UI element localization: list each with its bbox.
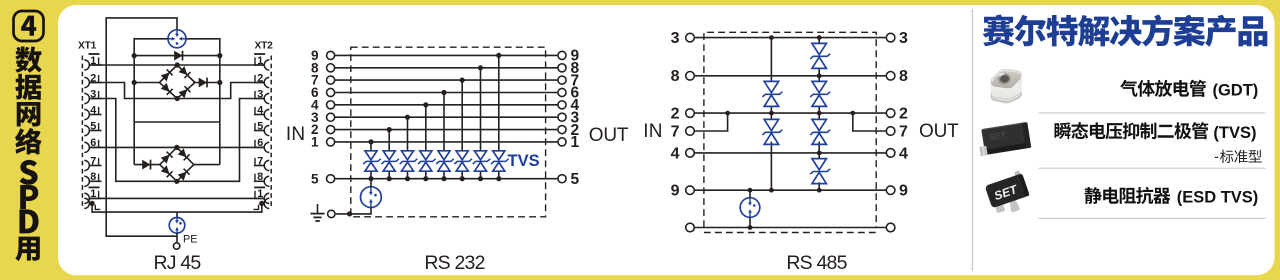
gas discharge tube F4 (RS485) <box>740 198 760 218</box>
svg-text:RJ 45: RJ 45 <box>154 252 202 274</box>
wire rail to GDT F2 <box>370 179 372 187</box>
RS232 ground terminal circle <box>328 210 335 217</box>
node bridge A left <box>132 80 137 85</box>
RS485 line 7 jog right <box>853 113 887 131</box>
node bridge B top on pin6 <box>174 145 179 150</box>
node bridge B bottom on pin3 path <box>174 179 179 184</box>
RS485 line 9 <box>694 189 887 191</box>
svg-text:4: 4 <box>90 104 96 116</box>
TVS diode VT13 (col2 line2-4) <box>810 119 830 144</box>
svg-text:(TVS): (TVS) <box>1213 124 1256 142</box>
wire pin2 XT1 jog to bridge bottom to XT2 <box>89 83 265 99</box>
TVS diode VT5 (RS232) <box>436 151 454 171</box>
RS232 IN terminals 9-1 <box>286 9 1267 274</box>
diode D9 bridge B upper-right <box>178 148 190 160</box>
diode D1 top row <box>174 51 182 61</box>
svg-text:5: 5 <box>257 120 263 132</box>
diode D6 bridge A output <box>199 78 207 88</box>
node bridge A top on pin1 <box>175 62 180 67</box>
TVS diode VT1 (RS232) <box>363 151 381 171</box>
diode D11 bridge B lower-right <box>178 169 190 181</box>
RS485 line 4 <box>694 152 887 154</box>
svg-text:IN: IN <box>286 124 305 145</box>
RS485 column1 wires <box>770 38 772 191</box>
node bridge A bottom on pin2 path <box>175 96 180 101</box>
svg-text:IN: IN <box>643 121 662 142</box>
svg-text:7: 7 <box>257 155 263 167</box>
RS485 junction nodes <box>643 9 1267 274</box>
wire GDT F2 to ground line <box>336 208 371 214</box>
svg-text:4: 4 <box>671 145 680 162</box>
inner box top edge through GDT F1 <box>134 38 220 40</box>
wire GDT F3 to PE terminal <box>176 233 178 243</box>
wire bridge B row <box>134 164 220 166</box>
terminal XT1 pins 1-8 and 1 <box>84 54 101 204</box>
node diode row left <box>132 53 137 58</box>
svg-text:2: 2 <box>671 106 680 123</box>
diode D5 bridge A lower-right <box>179 86 191 98</box>
wire row 1 (9th) XT1 to XT2 <box>90 197 264 199</box>
TVS diode VT8 (RS232) <box>491 151 509 171</box>
wire pin6 XT1 to XT2 <box>89 146 265 148</box>
RS485 line 7 jog left <box>694 113 728 131</box>
TVS diode VT4 (RS232) <box>418 151 436 171</box>
diode D3 bridge A upper-right <box>179 66 191 78</box>
RS485 IN terminals <box>643 9 1267 274</box>
TVS product photo <box>977 122 1032 156</box>
RS485 protection dashed enclosure <box>704 32 876 232</box>
diode D10 bridge B lower-left <box>161 165 173 177</box>
wire shield U link <box>92 203 262 212</box>
TVS diode VT3 (RS232) <box>400 151 418 171</box>
separator 2 <box>1039 167 1266 169</box>
wire shield to GDT F3 <box>176 212 178 218</box>
TVS subtype label -标准型 <box>1214 149 1262 165</box>
RS485 line 2 <box>694 112 887 114</box>
terminal strip dashed line XT2 <box>270 56 272 210</box>
diode D2 bridge A upper-left <box>161 69 173 81</box>
vertical divider <box>972 9 974 271</box>
separator 1 <box>1039 112 1266 114</box>
wire pin3 XT1 jog down to lower rail to XT2 <box>89 99 265 182</box>
svg-text:4: 4 <box>899 145 908 162</box>
svg-text:8: 8 <box>90 171 96 183</box>
RS232 TVS to rail wires with junctions <box>286 9 1267 274</box>
svg-text:(ESD TVS): (ESD TVS) <box>1177 189 1259 207</box>
svg-text:3: 3 <box>899 30 908 47</box>
TVS diode VT14 (col2 line4-9) <box>810 159 830 184</box>
wire PE loop (top edge, left edge, bottom edge) <box>106 18 177 236</box>
svg-text:7: 7 <box>90 155 96 167</box>
svg-text:9: 9 <box>899 183 908 200</box>
RS232 signal lines 9-1 <box>286 9 1267 274</box>
terminal XT2 pins 1-8 and 1 <box>254 54 269 204</box>
shield contact right with hook <box>254 198 270 209</box>
RS485 OUT terminals <box>643 9 1267 274</box>
inner protection box sides <box>134 38 220 165</box>
RS232 line 5 / common rail <box>335 178 558 180</box>
wire diode row top <box>134 55 220 57</box>
diode D4 bridge A lower-left <box>161 83 173 95</box>
RS485 shield rail <box>694 227 887 229</box>
svg-text:9: 9 <box>671 183 680 200</box>
diamond bridge A outline <box>159 65 195 99</box>
node ground line crossing <box>347 211 352 216</box>
RS485 line 8 <box>694 75 887 77</box>
svg-text:XT1: XT1 <box>78 41 97 52</box>
wire bridge A row <box>134 82 220 84</box>
GDT product label 气体放电管 (GDT) <box>1120 80 1258 100</box>
svg-text:8: 8 <box>257 171 263 183</box>
diode D8 bridge B upper-left <box>161 152 173 164</box>
TVS diode VT2 (RS232) <box>381 151 399 171</box>
svg-text:4: 4 <box>257 104 263 116</box>
ground symbol (RS232) <box>311 204 325 221</box>
inner box mid rung <box>134 121 220 123</box>
gas discharge tube F3 (bottom, to PE) <box>169 218 185 234</box>
svg-text:5: 5 <box>311 171 319 186</box>
svg-text:PE: PE <box>183 234 197 246</box>
svg-text:5: 5 <box>90 120 96 132</box>
terminal strip dashed line XT1 <box>81 56 83 210</box>
gas discharge tube F2 (RS232) <box>361 187 382 208</box>
RS485 line 3 <box>694 37 887 39</box>
svg-text:-: - <box>1214 149 1219 165</box>
svg-text:7: 7 <box>899 123 908 140</box>
svg-text:TVS: TVS <box>508 152 540 170</box>
TVS diode VT9 (col1 upper) <box>762 81 782 106</box>
svg-text:XT2: XT2 <box>255 41 274 52</box>
svg-text:8: 8 <box>671 68 680 85</box>
sidebar vertical title 数据网络SPD用 <box>15 46 42 261</box>
svg-text:(GDT): (GDT) <box>1212 81 1258 99</box>
RS232 OUT terminal 5 <box>558 171 580 188</box>
TVS diode VT6 (RS232) <box>454 151 472 171</box>
node diode row right <box>217 53 222 58</box>
separator 3 <box>1039 217 1266 219</box>
svg-text:8: 8 <box>899 68 908 85</box>
diamond bridge B outline <box>160 147 194 181</box>
svg-text:RS 485: RS 485 <box>786 252 847 274</box>
RS232 staircase drop wires with junctions <box>286 9 1267 274</box>
svg-text:7: 7 <box>671 123 680 140</box>
gas discharge tube F1 (3-pole, top) <box>168 30 186 48</box>
wire line9 to GDT F4 <box>749 190 751 198</box>
RS485 column2 wires <box>818 38 820 191</box>
TVS product label 瞬态电压抑制二极管 (TVS) <box>1055 122 1257 142</box>
TVS diode VT10 (col1 lower) <box>762 119 782 144</box>
node bridge A right <box>217 80 222 85</box>
svg-text:3: 3 <box>671 30 680 47</box>
RS232 IN terminal 5 <box>311 171 335 186</box>
svg-text:1: 1 <box>311 135 319 150</box>
PE terminal circle <box>173 243 179 249</box>
TVS diode VT11 (col2 line3-8) <box>810 43 830 68</box>
GDT product photo <box>991 69 1022 104</box>
wire GDT F4 to shield rail <box>749 217 751 227</box>
diode D7 bridge B input <box>142 160 150 170</box>
section number badge 4 <box>14 11 44 41</box>
svg-text:OUT: OUT <box>589 125 629 146</box>
products title 赛尔特解决方案产品 <box>983 14 1268 46</box>
shield contact left with hook <box>84 198 100 209</box>
RS232 protection dashed enclosure <box>351 47 546 217</box>
svg-text:1: 1 <box>571 134 580 151</box>
TVS diode VT7 (RS232) <box>473 151 491 171</box>
RS232 OUT terminals 9-1 <box>286 9 1267 274</box>
svg-text:2: 2 <box>899 106 908 123</box>
svg-text:RS 232: RS 232 <box>424 252 484 274</box>
ESD product photo <box>984 170 1034 218</box>
TVS diode VT12 (col2 line8-2) <box>810 81 830 106</box>
wire pin1 XT1 to XT2 <box>89 64 265 66</box>
ESD product label 静电阻抗器 (ESD TVS) <box>1085 187 1259 207</box>
svg-text:5: 5 <box>571 171 580 188</box>
svg-text:OUT: OUT <box>919 121 959 142</box>
